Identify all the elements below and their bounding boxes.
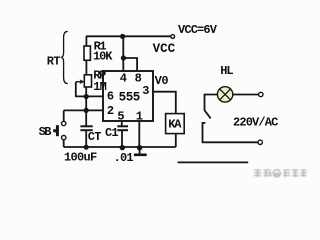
node pin8 branch junction bbox=[121, 55, 126, 60]
wire pin2 bbox=[64, 109, 103, 111]
node RT chain pin6 junction bbox=[84, 94, 89, 99]
potentiometer RP bbox=[84, 75, 91, 87]
pushbutton SB terminals bbox=[62, 121, 66, 125]
capacitor C1 plates bbox=[117, 126, 128, 130]
wire 220V separator line bbox=[178, 161, 249, 163]
svg-text:RT: RT bbox=[47, 55, 61, 69]
wire pin4 drop from rail bbox=[122, 36, 124, 71]
svg-text:2: 2 bbox=[107, 104, 114, 118]
svg-text:V0: V0 bbox=[155, 74, 169, 88]
wire pin1 stub bbox=[138, 121, 140, 147]
svg-text:VCC=6V: VCC=6V bbox=[178, 23, 218, 37]
svg-text:HL: HL bbox=[220, 64, 233, 78]
svg-text:100uF: 100uF bbox=[64, 151, 97, 165]
wire lamp left lead bbox=[205, 95, 218, 111]
capacitor CT plates bbox=[80, 126, 92, 130]
wire CT top lead bbox=[85, 110, 87, 125]
watermark bbox=[254, 170, 307, 178]
node C1 bottom junction bbox=[120, 145, 125, 150]
svg-text:CT: CT bbox=[88, 130, 101, 144]
wire switch blade bbox=[205, 110, 211, 118]
potentiometer RP wiper arrow bbox=[76, 79, 85, 84]
svg-text:220V/AC: 220V/AC bbox=[233, 115, 278, 129]
wire RP wiper tail bbox=[76, 82, 86, 96]
wire CT bottom lead bbox=[85, 131, 87, 147]
node CT bottom junction bbox=[84, 145, 89, 150]
wire node chain 6-2 bbox=[85, 96, 87, 110]
svg-text:3: 3 bbox=[142, 84, 149, 98]
wire ground stub bbox=[139, 147, 141, 154]
op-amp U1 555 timer box bbox=[103, 71, 153, 121]
wire bottom rail bbox=[64, 146, 176, 148]
wire pin3 output bbox=[153, 92, 176, 114]
node pin2 junction bbox=[84, 108, 89, 113]
wire RP bottom lead bbox=[85, 87, 87, 96]
wire pin8 branch bbox=[123, 58, 137, 71]
svg-text:1: 1 bbox=[136, 110, 143, 124]
svg-text:555: 555 bbox=[119, 91, 140, 105]
wire SB bottom lead bbox=[63, 140, 65, 147]
terminal circle 220V bottom bbox=[258, 140, 262, 144]
wire switch lower contact bbox=[203, 123, 258, 142]
svg-text:5: 5 bbox=[117, 110, 124, 124]
svg-text:KA: KA bbox=[168, 118, 182, 132]
node junction on top rail bbox=[120, 34, 125, 39]
svg-text:8: 8 bbox=[135, 72, 142, 86]
svg-text:4: 4 bbox=[120, 72, 127, 86]
node pin1 junction bbox=[137, 145, 142, 150]
RT curly brace bbox=[61, 31, 68, 83]
relay coil KA box bbox=[166, 114, 185, 134]
wire C1 bottom lead bbox=[121, 131, 123, 147]
wire pin6 bbox=[86, 95, 103, 97]
svg-text:SB: SB bbox=[39, 125, 52, 139]
svg-text:6: 6 bbox=[107, 90, 114, 104]
svg-text:.01: .01 bbox=[114, 151, 134, 165]
wire top VCC rail bbox=[86, 35, 171, 37]
resistor R1 bbox=[84, 46, 90, 60]
ground bar bbox=[134, 154, 147, 157]
wire lamp right lead bbox=[233, 94, 259, 96]
lamp HL bbox=[217, 87, 232, 102]
wire R1-RP link bbox=[85, 60, 87, 75]
wire pin5 stub bbox=[121, 121, 123, 126]
pushbutton SB bar bbox=[56, 125, 59, 136]
svg-text:VCC: VCC bbox=[153, 42, 176, 56]
pushbutton SB stem bbox=[53, 129, 56, 132]
svg-text:1M: 1M bbox=[93, 80, 106, 94]
svg-text:10K: 10K bbox=[93, 49, 113, 63]
VCC terminal circle bbox=[171, 35, 175, 39]
svg-text:C1: C1 bbox=[105, 126, 118, 140]
wire KA bottom lead bbox=[175, 134, 177, 147]
wire SB top lead bbox=[63, 110, 65, 121]
wire R1 top lead bbox=[85, 36, 87, 46]
terminal circle 220V top bbox=[259, 92, 263, 96]
